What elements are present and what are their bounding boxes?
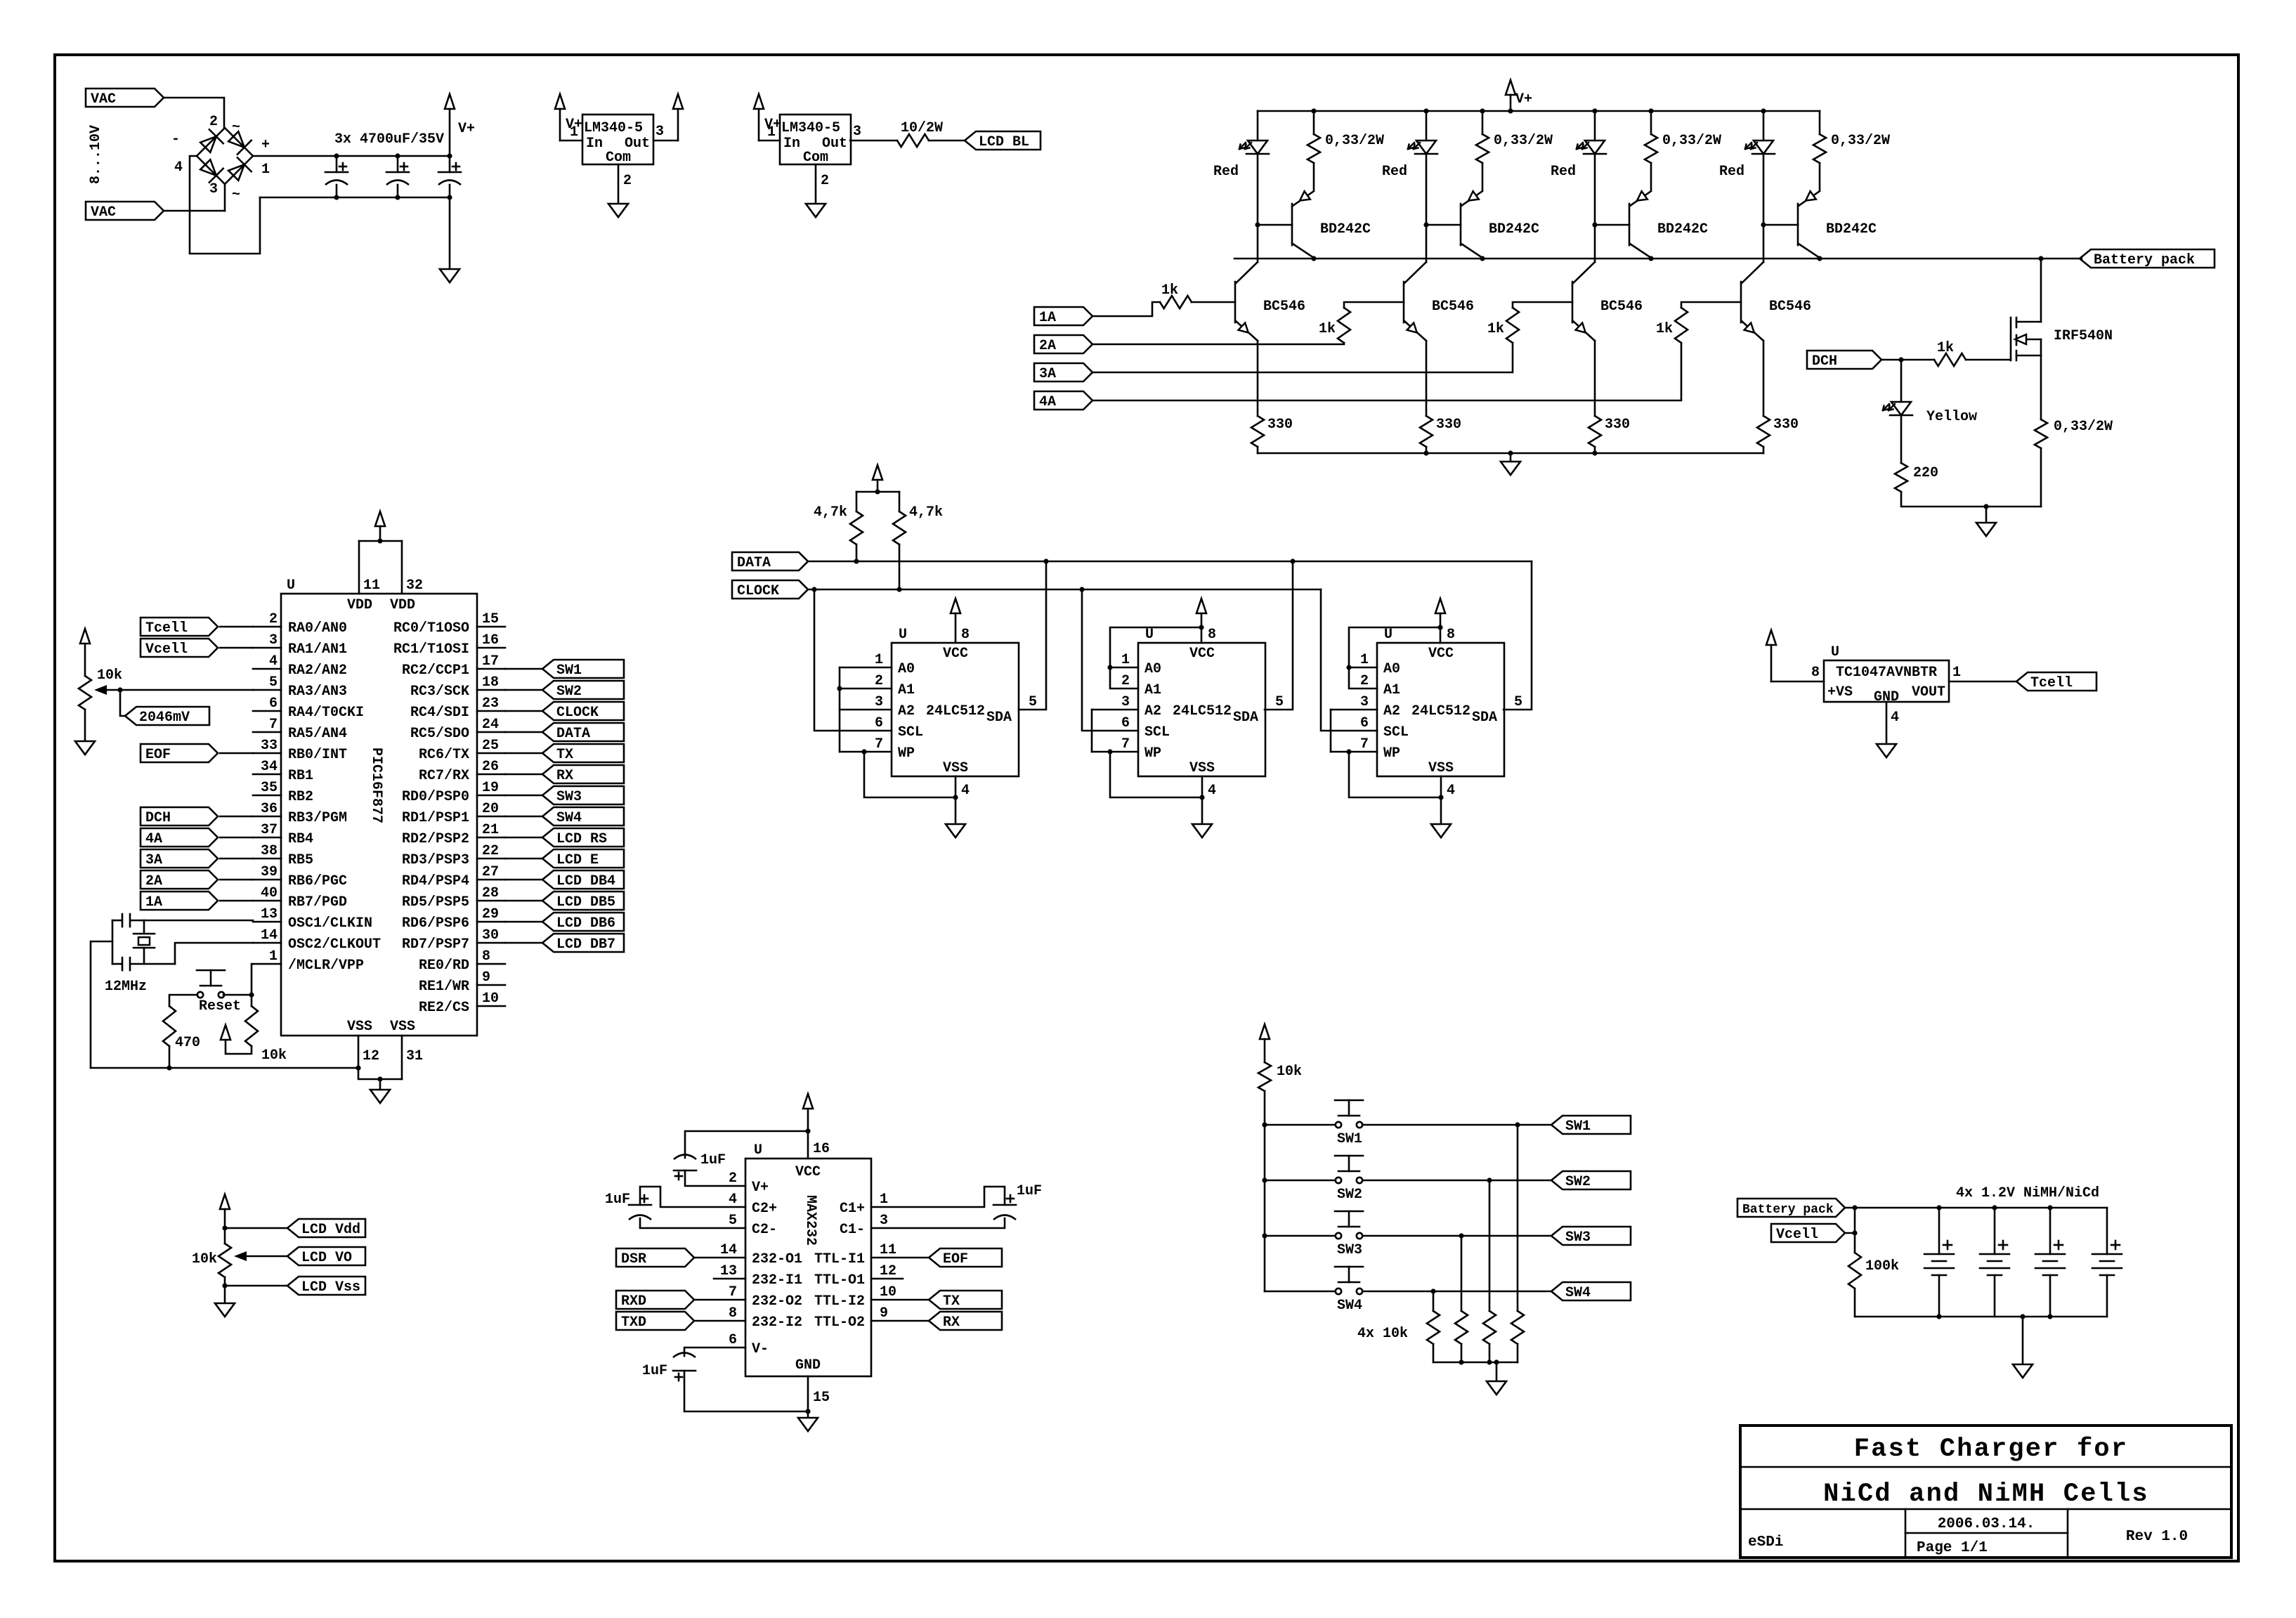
svg-text:470: 470 bbox=[175, 1035, 200, 1051]
svg-text:6: 6 bbox=[729, 1332, 737, 1348]
flag CLOCK bbox=[732, 580, 808, 599]
flag TX (MAX232) bbox=[929, 1291, 1002, 1309]
IC MAX232 box bbox=[745, 1159, 871, 1376]
wire pin to flag bbox=[505, 900, 542, 902]
svg-text:RB7/PGD: RB7/PGD bbox=[288, 894, 347, 911]
wire pin to flag bbox=[505, 689, 542, 691]
svg-text:1uF: 1uF bbox=[642, 1363, 667, 1379]
junction bbox=[2047, 1314, 2052, 1319]
PIC pin 1 /MCLR/VPP bbox=[253, 963, 281, 965]
resistor 100k bbox=[1848, 1253, 1861, 1288]
wire battery top rail bbox=[1846, 1207, 2107, 1209]
svg-text:SCL: SCL bbox=[1383, 724, 1409, 741]
resistor 10k #4 (switch pulldown) bbox=[1433, 1291, 1435, 1311]
junction bbox=[896, 587, 901, 592]
svg-text:SW4: SW4 bbox=[1337, 1298, 1362, 1314]
svg-text:In: In bbox=[586, 136, 603, 152]
resistor 10k (MCLR pullup) bbox=[245, 1006, 258, 1046]
wire to LCD Vdd flag bbox=[225, 1227, 287, 1229]
resistor 0,33/2W ch4 bbox=[1819, 111, 1821, 134]
wire SDA riser EEPROM3 bbox=[1504, 561, 1532, 710]
svg-text:8: 8 bbox=[1447, 627, 1455, 643]
battery cell #1 bbox=[1938, 1208, 1940, 1254]
svg-text:4x 10k: 4x 10k bbox=[1357, 1326, 1408, 1342]
wire bus to SW2 bbox=[1265, 1180, 1335, 1182]
wire SW2 to flag bbox=[1363, 1180, 1551, 1182]
svg-text:BD242C: BD242C bbox=[1657, 221, 1708, 237]
svg-text:3: 3 bbox=[880, 1213, 888, 1229]
junction bbox=[1648, 108, 1653, 113]
wire VAC1 to bridge bbox=[164, 98, 224, 127]
svg-text:V+: V+ bbox=[458, 121, 475, 137]
wire 1k top to BC546 base ch2 bbox=[1344, 302, 1404, 308]
wire pin to flag bbox=[505, 879, 542, 881]
svg-text:0,33/2W: 0,33/2W bbox=[1831, 133, 1890, 149]
svg-text:LCD RS: LCD RS bbox=[556, 831, 607, 847]
flag Vcell (bottom) bbox=[1771, 1224, 1845, 1242]
svg-text:GND: GND bbox=[795, 1357, 821, 1374]
resistor 10k #2 (switch pulldown) bbox=[1489, 1180, 1491, 1311]
flag EOF (MAX232) bbox=[929, 1248, 1002, 1267]
PIC pin 18 RC3/SCK bbox=[477, 689, 505, 691]
svg-text:19: 19 bbox=[482, 780, 499, 796]
junction bbox=[222, 1225, 227, 1230]
wire 2A control line bbox=[1092, 343, 1344, 344]
flag SW2 (right) bbox=[1551, 1171, 1631, 1189]
svg-text:5: 5 bbox=[1514, 694, 1522, 710]
svg-text:V+: V+ bbox=[752, 1180, 769, 1196]
potentiometer 10k (LCD VO) bbox=[218, 1244, 231, 1277]
flag 3A (PIC) bbox=[141, 849, 218, 868]
svg-text:LCD DB7: LCD DB7 bbox=[556, 937, 615, 953]
svg-text:MAX232: MAX232 bbox=[802, 1195, 818, 1246]
wire CLOCK to SCL EEPROM1 bbox=[814, 589, 892, 731]
junction bbox=[1852, 1205, 1857, 1210]
wire V+ to In pin1 LM340 #1 bbox=[560, 140, 582, 142]
wire pin to flag bbox=[505, 668, 542, 670]
flag SW2 (PIC) bbox=[542, 681, 624, 699]
wire A2/WP bracket EEPROM3 bbox=[1331, 709, 1377, 711]
junction at resistor tap SW3 bbox=[1459, 1233, 1463, 1238]
flag 2046mV bbox=[125, 707, 209, 725]
bridge rectifier B1 diamond bbox=[197, 128, 253, 184]
flag Tcell (sensor) bbox=[2016, 672, 2096, 691]
resistor 0,33/2W ch2 bbox=[1482, 111, 1484, 134]
svg-text:3: 3 bbox=[269, 632, 278, 648]
svg-text:5: 5 bbox=[269, 674, 278, 691]
svg-text:TTL-O1: TTL-O1 bbox=[814, 1272, 865, 1288]
svg-text:In: In bbox=[783, 136, 800, 152]
wire pulldown bottom rail bbox=[1433, 1362, 1518, 1364]
junction bbox=[222, 1283, 227, 1288]
svg-text:1: 1 bbox=[1952, 665, 1961, 681]
ground 24LC512 #2 bbox=[1201, 776, 1204, 797]
flag 4A (PIC) bbox=[141, 828, 218, 847]
svg-text:VCC: VCC bbox=[1189, 646, 1215, 662]
wire pin to flag bbox=[505, 710, 542, 712]
junction bbox=[1459, 1359, 1463, 1364]
MAX232 pin 13 stub bbox=[714, 1278, 745, 1280]
svg-text:330: 330 bbox=[1605, 417, 1630, 433]
wire LM340#1 Out to 5V arrow bbox=[653, 140, 678, 142]
svg-text:RD7/PSP7: RD7/PSP7 bbox=[402, 937, 469, 953]
svg-text:13: 13 bbox=[720, 1263, 737, 1279]
svg-text:C1-: C1- bbox=[840, 1222, 865, 1238]
junction bbox=[1480, 108, 1485, 113]
flag SW4 (PIC) bbox=[542, 807, 624, 826]
svg-text:VAC: VAC bbox=[91, 204, 116, 221]
svg-text:12MHz: 12MHz bbox=[105, 979, 147, 995]
wire battery pack rail bbox=[1234, 258, 2082, 260]
svg-text:11: 11 bbox=[880, 1242, 896, 1258]
svg-text:IRF540N: IRF540N bbox=[2054, 328, 2113, 344]
LED Yellow bbox=[1900, 360, 1903, 402]
svg-text:RC3/SCK: RC3/SCK bbox=[410, 684, 469, 700]
pushbutton SW1 bbox=[1336, 1122, 1341, 1128]
svg-text:LCD BL: LCD BL bbox=[979, 134, 1029, 150]
flag RX (PIC) bbox=[542, 765, 624, 783]
supply V+ pullups bbox=[873, 465, 882, 480]
svg-text:330: 330 bbox=[1436, 417, 1461, 433]
ground Com pin2 LM340 #2 bbox=[815, 164, 817, 204]
IC 24LC512 #3 box bbox=[1377, 643, 1504, 776]
wire V+ to In pin1 LM340 #2 bbox=[759, 140, 780, 142]
svg-text:1: 1 bbox=[269, 948, 278, 965]
junction bbox=[1262, 1233, 1267, 1238]
flag LCD Vdd bbox=[287, 1219, 365, 1237]
resistor 1k ch1 bbox=[1160, 296, 1192, 308]
svg-text:CLOCK: CLOCK bbox=[737, 583, 779, 599]
bridge diode 2-1 bbox=[228, 131, 244, 148]
flag Vcell (PIC) bbox=[141, 639, 218, 657]
wire V+ to +VS bbox=[1771, 681, 1824, 683]
resistor 0,33/2W ch3 bbox=[1650, 111, 1652, 134]
crystal circuit: capacitor C-osc2 bbox=[131, 963, 175, 965]
svg-text:10/2W: 10/2W bbox=[901, 120, 943, 136]
wire yellow LED to 220 bbox=[1900, 415, 1903, 463]
PIC pin 7 RA5/AN4 bbox=[253, 731, 281, 733]
transistor BD242C ch3 bbox=[1629, 204, 1631, 245]
svg-text:3A: 3A bbox=[1039, 366, 1056, 382]
svg-text:33: 33 bbox=[261, 738, 278, 754]
svg-text:SW3: SW3 bbox=[1337, 1242, 1362, 1258]
wire LED to BC546 collector ch3 bbox=[1594, 225, 1596, 262]
supply V+ for LM340 #1 bbox=[555, 94, 565, 109]
wire WP to VSS EEPROM1 bbox=[864, 752, 955, 797]
svg-text:4: 4 bbox=[1208, 783, 1216, 799]
svg-text:SW2: SW2 bbox=[1565, 1174, 1591, 1190]
PIC pin 36 RB3/PGM bbox=[253, 816, 281, 818]
wire 1k to BC546#1 base bbox=[1192, 301, 1235, 304]
wire pin to flag bbox=[505, 752, 542, 755]
svg-text:DCH: DCH bbox=[1812, 353, 1837, 370]
resistor 4,7k (DATA) bbox=[856, 492, 858, 511]
svg-text:CLOCK: CLOCK bbox=[556, 705, 599, 721]
ground battery bbox=[2022, 1317, 2024, 1364]
svg-text:DCH: DCH bbox=[145, 810, 171, 826]
svg-text:1k: 1k bbox=[1487, 321, 1504, 337]
PIC pin 37 RB4 bbox=[253, 837, 281, 839]
wire VCC to A0/A1 EEPROM3 bbox=[1349, 627, 1440, 689]
wire DSR to 232-O1 bbox=[696, 1257, 745, 1259]
PIC VDD pins 11/32 bbox=[358, 541, 360, 594]
svg-text:Reset: Reset bbox=[199, 998, 241, 1014]
supply V+ LCD pot bbox=[220, 1194, 230, 1209]
junction at resistor tap SW2 bbox=[1487, 1177, 1492, 1182]
title block outer box bbox=[1740, 1425, 2231, 1558]
flag 1A (PIC) bbox=[141, 892, 218, 910]
PIC pin 24 RC5/SDO bbox=[477, 731, 505, 733]
LED Red ch4 bbox=[1763, 111, 1765, 141]
svg-text:RA0/AN0: RA0/AN0 bbox=[288, 620, 347, 637]
supply arrow LM340#1 output bbox=[673, 94, 683, 109]
wire LED cathode down ch2 bbox=[1426, 154, 1428, 225]
svg-text:TX: TX bbox=[556, 747, 573, 763]
svg-text:A1: A1 bbox=[1144, 682, 1161, 698]
svg-text:SDA: SDA bbox=[1472, 710, 1497, 726]
svg-text:RB2: RB2 bbox=[288, 789, 313, 805]
svg-text:DATA: DATA bbox=[737, 555, 771, 571]
svg-text:VSS: VSS bbox=[1189, 760, 1215, 776]
svg-text:BD242C: BD242C bbox=[1320, 221, 1371, 237]
svg-text:LCD Vss: LCD Vss bbox=[301, 1279, 360, 1296]
svg-text:7: 7 bbox=[1360, 736, 1369, 752]
svg-text:LCD E: LCD E bbox=[556, 852, 599, 868]
svg-text:LCD DB4: LCD DB4 bbox=[556, 873, 615, 889]
PIC pin 34 RB1 bbox=[253, 774, 281, 776]
svg-text:RC4/SDI: RC4/SDI bbox=[410, 705, 469, 721]
PIC pin 29 RD6/PSP6 bbox=[477, 921, 505, 923]
flag LCD DB5 (PIC) bbox=[542, 892, 624, 910]
svg-text:36: 36 bbox=[261, 801, 278, 817]
svg-text:RA2/AN2: RA2/AN2 bbox=[288, 663, 347, 679]
svg-text:232-O1: 232-O1 bbox=[752, 1251, 802, 1267]
svg-text:4: 4 bbox=[961, 783, 970, 799]
flag DCH (driver) bbox=[1807, 351, 1881, 369]
svg-text:BC546: BC546 bbox=[1263, 299, 1305, 315]
transistor BD242C ch4 bbox=[1797, 204, 1799, 245]
wire to 2046mV flag bbox=[120, 690, 125, 716]
svg-text:RE2/CS: RE2/CS bbox=[419, 1000, 469, 1016]
svg-text:SW3: SW3 bbox=[556, 789, 582, 805]
ground MAX232 pin15 bbox=[807, 1376, 809, 1411]
wire bus to SW3 bbox=[1265, 1235, 1335, 1237]
junction bbox=[1592, 450, 1597, 455]
junction bbox=[1898, 357, 1903, 362]
svg-text:RB0/INT: RB0/INT bbox=[288, 747, 347, 763]
wire BD242C collector to battery rail ch1 bbox=[1313, 258, 1315, 259]
wire cap bottom rail bbox=[260, 197, 450, 199]
svg-text:Com: Com bbox=[606, 150, 631, 166]
svg-text:14: 14 bbox=[720, 1242, 737, 1258]
wire BD242C base ch1 bbox=[1258, 224, 1292, 226]
junction bbox=[1983, 504, 1988, 509]
svg-text:LM340-5: LM340-5 bbox=[584, 120, 643, 136]
svg-text:7: 7 bbox=[1121, 736, 1130, 752]
svg-text:0,33/2W: 0,33/2W bbox=[1494, 133, 1553, 149]
svg-text:LCD DB5: LCD DB5 bbox=[556, 894, 615, 911]
svg-text:A0: A0 bbox=[1383, 661, 1400, 677]
svg-text:~: ~ bbox=[232, 119, 240, 136]
flag LCD DB6 (PIC) bbox=[542, 913, 624, 931]
svg-text:1k: 1k bbox=[1937, 340, 1954, 356]
PIC pin 13 OSC1/CLKIN bbox=[253, 921, 281, 923]
battery cell #3 bbox=[2049, 1208, 2052, 1254]
svg-text:3: 3 bbox=[209, 181, 218, 197]
wire BD242C collector to battery rail ch4 bbox=[1819, 258, 1821, 259]
PIC pin 33 RB0/INT bbox=[253, 752, 281, 755]
svg-text:VCC: VCC bbox=[795, 1164, 821, 1180]
ground main reservoir bbox=[449, 197, 451, 269]
svg-text:V+: V+ bbox=[1515, 91, 1532, 107]
capacitor 1uF (V-) bbox=[684, 1348, 745, 1356]
wire DATA bus bbox=[808, 561, 1532, 563]
IC PIC16F877 box bbox=[281, 594, 477, 1036]
pushbutton SW4 bbox=[1336, 1288, 1341, 1294]
svg-text:3: 3 bbox=[1121, 694, 1130, 710]
wire pin to flag bbox=[505, 858, 542, 860]
svg-text:EOF: EOF bbox=[943, 1251, 968, 1267]
ground discharge rail bbox=[1985, 507, 1988, 523]
svg-text:3: 3 bbox=[1360, 694, 1369, 710]
svg-text:Red: Red bbox=[1382, 164, 1407, 180]
junction bbox=[2038, 256, 2043, 261]
svg-text:35: 35 bbox=[261, 780, 278, 796]
wire Vcell to bus bbox=[1845, 1232, 1855, 1234]
resistor 330 ch1 bbox=[1251, 416, 1264, 447]
svg-text:15: 15 bbox=[813, 1390, 830, 1406]
svg-text:1A: 1A bbox=[145, 894, 162, 911]
svg-text:TTL-I1: TTL-I1 bbox=[814, 1251, 865, 1267]
wire MCLR to pin1 bbox=[252, 964, 253, 1006]
svg-text:Red: Red bbox=[1213, 164, 1239, 180]
capacitor 4700uF #3 bbox=[449, 156, 451, 172]
pushbutton SW2 bbox=[1336, 1177, 1341, 1183]
svg-text:VDD: VDD bbox=[390, 597, 415, 613]
svg-text:16: 16 bbox=[813, 1141, 830, 1157]
svg-text:24LC512: 24LC512 bbox=[926, 703, 985, 719]
wire BC546 emitter down ch2 bbox=[1426, 341, 1428, 416]
svg-text:SCL: SCL bbox=[898, 724, 923, 741]
PIC pin 3 RA1/AN1 bbox=[253, 647, 281, 649]
svg-text:2: 2 bbox=[1121, 673, 1130, 689]
svg-text:7: 7 bbox=[269, 717, 278, 733]
resistor 10k #3 (switch pulldown) bbox=[1461, 1236, 1463, 1311]
bridge diode 4-3 bbox=[200, 159, 216, 176]
svg-text:LCD DB6: LCD DB6 bbox=[556, 915, 615, 932]
flag Tcell (PIC) bbox=[141, 618, 218, 636]
svg-text:3: 3 bbox=[875, 694, 883, 710]
wire SDA riser EEPROM1 bbox=[1019, 561, 1046, 710]
battery cell #4 bbox=[2106, 1208, 2108, 1254]
svg-text:U: U bbox=[1831, 644, 1839, 660]
wire A2/WP bracket EEPROM2 bbox=[1092, 709, 1138, 711]
svg-text:18: 18 bbox=[482, 674, 499, 691]
wire ground rail under PIC bbox=[91, 1067, 358, 1069]
svg-text:10k: 10k bbox=[261, 1048, 287, 1064]
svg-text:C1+: C1+ bbox=[840, 1201, 865, 1217]
svg-text:24LC512: 24LC512 bbox=[1411, 703, 1470, 719]
svg-text:25: 25 bbox=[482, 738, 499, 754]
supply V+ EEPROM1 bbox=[951, 599, 960, 613]
svg-text:A2: A2 bbox=[898, 703, 915, 719]
svg-text:+VS: +VS bbox=[1827, 684, 1853, 700]
svg-text:RD1/PSP1: RD1/PSP1 bbox=[402, 810, 469, 826]
svg-text:1: 1 bbox=[767, 124, 776, 141]
svg-text:2046mV: 2046mV bbox=[139, 710, 190, 726]
ground PIC bbox=[379, 1079, 381, 1090]
svg-text:2006.03.14.: 2006.03.14. bbox=[1938, 1516, 2035, 1532]
svg-text:RD0/PSP0: RD0/PSP0 bbox=[402, 789, 469, 805]
svg-text:9: 9 bbox=[880, 1305, 888, 1322]
svg-text:SCL: SCL bbox=[1144, 724, 1170, 741]
svg-text:1k: 1k bbox=[1656, 321, 1673, 337]
title block dividers bbox=[1740, 1466, 2231, 1468]
PIC pin 21 RD2/PSP2 bbox=[477, 837, 505, 839]
resistor 10k (switch pullup) bbox=[1258, 1062, 1271, 1091]
svg-text:4: 4 bbox=[269, 653, 278, 670]
wire flag to pin bbox=[220, 837, 253, 839]
svg-text:VSS: VSS bbox=[1428, 760, 1454, 776]
wire LED to BC546 collector ch4 bbox=[1763, 225, 1765, 262]
svg-text:4: 4 bbox=[729, 1192, 737, 1208]
svg-text:30: 30 bbox=[482, 927, 499, 944]
svg-text:8: 8 bbox=[729, 1305, 737, 1322]
svg-text:RB3/PGM: RB3/PGM bbox=[288, 810, 347, 826]
flag RXD bbox=[616, 1291, 694, 1309]
junction bbox=[1508, 450, 1513, 455]
ground LED driver rail bbox=[1510, 453, 1512, 462]
PIC pin 23 RC4/SDI bbox=[477, 710, 505, 712]
supply V+ TC1047 bbox=[1766, 630, 1776, 645]
wire bridge pin3 lead bbox=[224, 184, 226, 211]
PIC pin 15 RC0/T1OSO bbox=[477, 626, 505, 628]
flag SW3 (PIC) bbox=[542, 786, 624, 804]
PIC pin 19 RD0/PSP0 bbox=[477, 795, 505, 797]
flag DCH (PIC) bbox=[141, 807, 218, 826]
flag DSR bbox=[616, 1248, 694, 1267]
pot wiper wire to RA3 bbox=[105, 689, 253, 691]
wire VOUT to Tcell flag bbox=[1949, 681, 2016, 683]
resistor 1k ch2 bbox=[1338, 308, 1350, 343]
PIC pin 16 RC1/T1OSI bbox=[477, 647, 505, 649]
wire BD242C base ch3 bbox=[1595, 224, 1629, 226]
wire WP to VSS EEPROM2 bbox=[1110, 752, 1201, 797]
wire RXD to 232-O2 bbox=[696, 1299, 745, 1301]
resistor 1k ch3 bbox=[1506, 308, 1519, 343]
svg-text:WP: WP bbox=[1144, 745, 1161, 762]
wire + rail to caps bbox=[253, 155, 450, 157]
wire BC546 emitter down ch4 bbox=[1763, 341, 1765, 416]
svg-text:VCC: VCC bbox=[1428, 646, 1454, 662]
svg-text:17: 17 bbox=[482, 653, 499, 670]
wire pin to flag bbox=[505, 837, 542, 839]
wire LED cathode down ch3 bbox=[1594, 154, 1596, 225]
wire SW1 to flag bbox=[1363, 1124, 1551, 1126]
resistor 330 ch4 bbox=[1757, 416, 1770, 447]
LED Red ch1 bbox=[1257, 111, 1259, 141]
flag LCD E (PIC) bbox=[542, 849, 624, 868]
svg-text:330: 330 bbox=[1773, 417, 1799, 433]
svg-text:VAC: VAC bbox=[91, 91, 116, 107]
wire BD242C collector to battery rail ch2 bbox=[1482, 258, 1484, 259]
svg-text:7: 7 bbox=[875, 736, 883, 752]
supply V+ for MCLR pullup bbox=[221, 1025, 230, 1040]
svg-text:3A: 3A bbox=[145, 852, 162, 868]
resistor 1k gate bbox=[1934, 353, 1966, 366]
wire TTL-I2 to TX bbox=[871, 1299, 929, 1301]
PIC pin 22 RD3/PSP3 bbox=[477, 858, 505, 860]
